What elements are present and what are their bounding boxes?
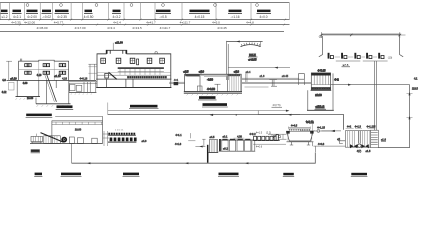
mid labels bbox=[26, 114, 52, 117]
svg-text:≤=2.35: ≤=2.35 bbox=[249, 58, 257, 61]
svg-text:≤0.10: ≤0.10 bbox=[10, 77, 17, 80]
svg-text:10.00: 10.00 bbox=[27, 97, 34, 100]
svg-text:≤4.5: ≤4.5 bbox=[184, 71, 189, 74]
svg-text:-0.30: -0.30 bbox=[207, 78, 213, 81]
svg-text:(10): (10) bbox=[388, 56, 393, 59]
svg-text:4=0.50: 4=0.50 bbox=[84, 15, 94, 19]
floor lines bbox=[97, 74, 171, 76]
drum/pump bbox=[61, 137, 67, 143]
ground line bbox=[7, 79, 97, 81]
svg-text:≤1.6: ≤1.6 bbox=[381, 139, 386, 142]
svg-text:4=111.7: 4=111.7 bbox=[160, 26, 171, 30]
svg-text:4(7): 4(7) bbox=[357, 150, 362, 153]
left feed pipes/valves bbox=[268, 134, 287, 139]
small boxes bbox=[69, 137, 74, 143]
elevation line over basin bbox=[228, 67, 290, 69]
silo / room roof rails bbox=[52, 121, 103, 122]
basement bbox=[97, 79, 171, 87]
cell values bbox=[1, 15, 267, 19]
dark drop pipe bbox=[207, 145, 209, 163]
windows bbox=[101, 58, 165, 63]
left inlet elbow bbox=[338, 141, 345, 144]
inclined conveyor bbox=[41, 133, 64, 143]
svg-text:4=2: 4=2 bbox=[334, 79, 339, 82]
svg-text:4=5.77: 4=5.77 bbox=[54, 21, 64, 25]
svg-text:≤4.9: ≤4.9 bbox=[199, 71, 204, 74]
machine B: belt press bbox=[44, 136, 61, 144]
svg-text:≤1.10: ≤1.10 bbox=[54, 75, 61, 78]
label bars (cell titles) bbox=[1, 10, 271, 13]
svg-text:4=1.1: 4=1.1 bbox=[175, 134, 182, 137]
outline bbox=[19, 60, 69, 80]
svg-text:4=2.60: 4=2.60 bbox=[306, 120, 314, 123]
elbow+arrow feeding tank bbox=[195, 146, 205, 148]
svg-text:4=111.7: 4=111.7 bbox=[180, 21, 191, 25]
clear water main from filter to right, down, back to ladder shaft bbox=[331, 85, 410, 148]
svg-text:4=13.5: 4=13.5 bbox=[132, 26, 142, 30]
svg-text:4=1.115: 4=1.115 bbox=[367, 125, 377, 128]
svg-text:4=0.45: 4=0.45 bbox=[217, 26, 227, 30]
left inlet bbox=[8, 82, 14, 90]
svg-text:4=4.5: 4=4.5 bbox=[291, 124, 298, 127]
dim row1 values bbox=[11, 21, 254, 25]
tank with hatch bbox=[209, 140, 217, 153]
svg-text:119.5: 119.5 bbox=[412, 88, 418, 91]
svg-text:4=3.4: 4=3.4 bbox=[107, 26, 115, 30]
svg-text:≤4.0: ≤4.0 bbox=[142, 140, 147, 143]
door bbox=[137, 59, 139, 65]
svg-text:4=7.45: 4=7.45 bbox=[318, 70, 326, 73]
filter box: dark top band bbox=[311, 73, 330, 76]
body bbox=[287, 131, 314, 141]
svg-text:4=1.3: 4=1.3 bbox=[355, 125, 362, 128]
svg-text:4.10: 4.10 bbox=[37, 74, 42, 77]
svg-text:4=45.00: 4=45.00 bbox=[36, 26, 47, 30]
svg-text:4=2.1: 4=2.1 bbox=[13, 15, 21, 19]
svg-text:≤1.6: ≤1.6 bbox=[260, 75, 265, 78]
svg-text:4.12: 4.12 bbox=[2, 91, 7, 94]
small tank bbox=[299, 74, 305, 80]
dimension line bbox=[321, 34, 402, 36]
dim ticks row1 bbox=[9, 19, 286, 21]
underground pit bbox=[17, 80, 69, 103]
table horizontal rules bbox=[0, 3, 290, 32]
right cell hatch bbox=[230, 74, 241, 91]
windows row1 bbox=[25, 64, 66, 67]
svg-text:≤7.5: ≤7.5 bbox=[343, 63, 349, 67]
frame verticals with feet bbox=[319, 36, 403, 57]
antenna bbox=[112, 43, 114, 51]
roof + penthouse bbox=[97, 50, 171, 79]
svg-text:4=5.0: 4=5.0 bbox=[212, 21, 220, 25]
svg-text:4=3.35: 4=3.35 bbox=[11, 21, 21, 25]
upper thin line ending with arrow bbox=[108, 110, 286, 112]
svg-text:4=3.2: 4=3.2 bbox=[113, 15, 121, 19]
svg-text:4=41.7: 4=41.7 bbox=[146, 21, 156, 25]
dim row2 values bbox=[36, 26, 227, 30]
left segment to dewatering room bbox=[55, 117, 102, 121]
mound arc bbox=[241, 45, 261, 47]
bowtie valves bbox=[350, 144, 357, 148]
svg-text:4=0.6: 4=0.6 bbox=[256, 146, 263, 149]
svg-text:1 1 0 1 1: 1 1 0 1 1 bbox=[115, 130, 124, 132]
middle cell internals bbox=[215, 84, 221, 91]
svg-text:4=0.8: 4=0.8 bbox=[318, 143, 325, 146]
svg-text:4=1: 4=1 bbox=[174, 79, 179, 82]
svg-text:≤1.5: ≤1.5 bbox=[366, 150, 371, 153]
svg-text:(2.2): (2.2) bbox=[266, 132, 271, 135]
penthouse posts bbox=[106, 50, 108, 54]
handrail ticks bbox=[290, 129, 310, 131]
svg-text:P.Z.Z: P.Z.Z bbox=[249, 53, 256, 57]
equipment units row bbox=[328, 53, 393, 60]
svg-text:-=1.16: -=1.16 bbox=[231, 15, 240, 19]
long vertical pipe from equipment row down to pump house bbox=[375, 61, 377, 131]
svg-text:≤4.8: ≤4.8 bbox=[234, 71, 239, 74]
svg-text:4=0.0: 4=0.0 bbox=[260, 15, 268, 19]
table vertical separators bbox=[0, 3, 289, 20]
svg-text:4=2.00: 4=2.00 bbox=[27, 15, 37, 19]
diffuser dotted band bbox=[128, 76, 167, 78]
svg-text:4=0.16: 4=0.16 bbox=[80, 78, 88, 81]
svg-text:4=2.4: 4=2.4 bbox=[113, 21, 121, 25]
svg-text:≤0.4: ≤0.4 bbox=[246, 71, 251, 74]
svg-text:4=4.8: 4=4.8 bbox=[246, 21, 254, 25]
svg-text:≤11.60: ≤11.60 bbox=[115, 42, 123, 45]
svg-text:4.00: 4.00 bbox=[23, 82, 28, 85]
dim ticks row2 bbox=[19, 24, 285, 26]
lower main line to pump house bbox=[108, 115, 344, 130]
svg-text:≤4.5: ≤4.5 bbox=[210, 136, 215, 139]
floor line bbox=[19, 68, 69, 70]
svg-text:≤0.1: ≤0.1 bbox=[223, 136, 228, 139]
clear well below bbox=[308, 73, 333, 110]
svg-text:-=0.02: -=0.02 bbox=[42, 15, 51, 19]
svg-text:4=1.5: 4=1.5 bbox=[256, 132, 263, 135]
svg-text:10.00: 10.00 bbox=[75, 129, 82, 132]
discharge drop + bottom main bbox=[71, 144, 73, 164]
machine A: table on legs bbox=[31, 136, 43, 141]
central shaft bbox=[359, 131, 361, 144]
label underlines bbox=[1, 13, 272, 15]
internal launder (long trough) bbox=[118, 67, 164, 69]
window mullions bbox=[26, 64, 64, 75]
stair diagonal bbox=[109, 72, 117, 79]
svg-text:4.0: 4.0 bbox=[2, 79, 6, 82]
legs bbox=[290, 142, 310, 145]
svg-text:4=2: 4=2 bbox=[347, 125, 352, 128]
svg-text:≤0.2: ≤0.2 bbox=[223, 147, 228, 150]
pedestal support bbox=[269, 80, 277, 87]
svg-text:-=0.5: -=0.5 bbox=[159, 15, 166, 19]
svg-text:4=17.00: 4=17.00 bbox=[74, 26, 85, 30]
svg-text:≤0.45: ≤0.45 bbox=[282, 75, 289, 78]
left cell internals bbox=[197, 86, 202, 92]
svg-text:4=12.00: 4=12.00 bbox=[24, 21, 35, 25]
windows row2 bbox=[25, 71, 66, 74]
svg-text:4=(7.5): 4=(7.5) bbox=[273, 104, 281, 107]
left canopy bbox=[88, 64, 97, 80]
diagonal chute bbox=[47, 75, 57, 102]
svg-text:4.16: 4.16 bbox=[62, 78, 67, 81]
svg-text:4=1.8: 4=1.8 bbox=[175, 143, 182, 146]
drain down to bottom line bbox=[313, 142, 316, 152]
brackets below bbox=[336, 60, 388, 62]
elevation markers above bbox=[184, 71, 240, 91]
svg-text:≤1.2: ≤1.2 bbox=[1, 15, 7, 19]
svg-text:4=0.15: 4=0.15 bbox=[195, 15, 205, 19]
svg-text:≤19.2: ≤19.2 bbox=[316, 105, 325, 109]
bottom titles bbox=[35, 173, 42, 176]
right stack of fittings bbox=[103, 131, 109, 146]
svg-text:4=0.30: 4=0.30 bbox=[207, 88, 215, 91]
node circles bbox=[26, 4, 258, 7]
svg-text:±0.00: ±0.00 bbox=[315, 94, 322, 97]
underdrain dark band bbox=[312, 88, 330, 90]
svg-text:4=2.35: 4=2.35 bbox=[57, 15, 67, 19]
svg-text:4=1.15: 4=1.15 bbox=[317, 127, 325, 130]
